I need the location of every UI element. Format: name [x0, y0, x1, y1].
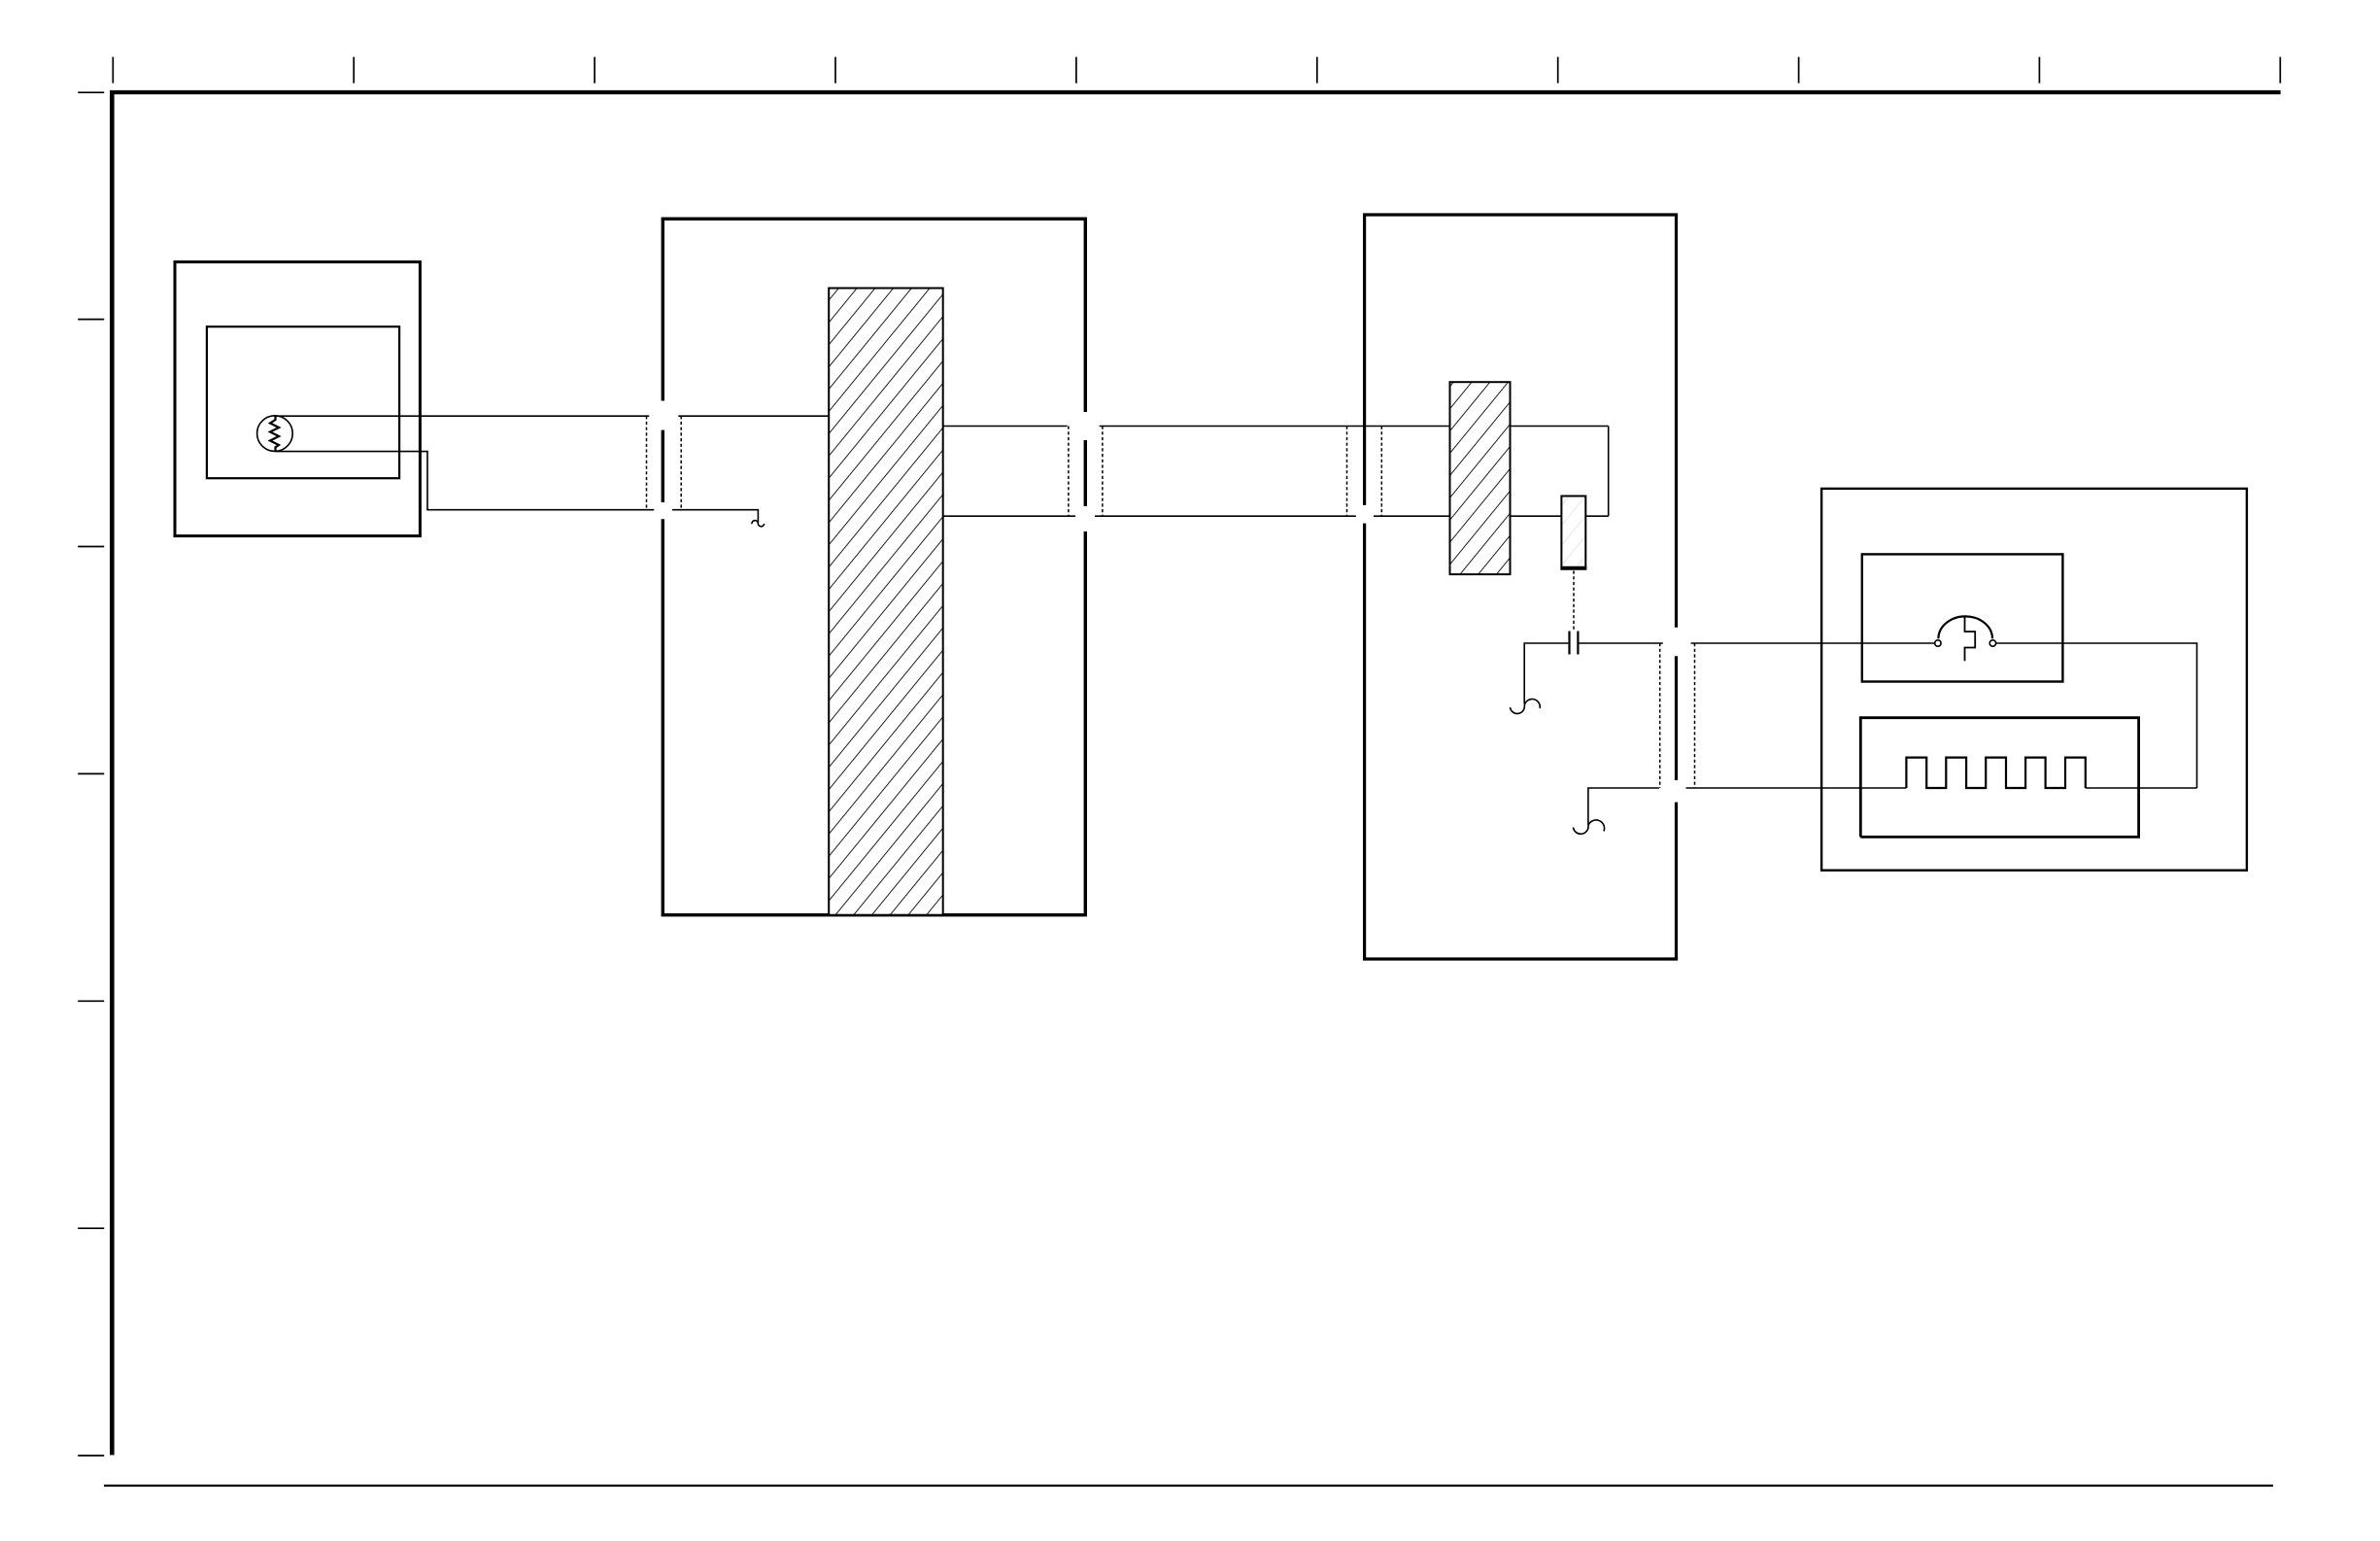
lamp LA1 — [257, 416, 293, 452]
connector CN2 dashed boundary right — [1102, 427, 1104, 517]
wire: heat plate to connector CN2 upper — [943, 426, 1068, 428]
sensor enclosure box3 right edge (gaps at wires) — [1675, 215, 1678, 959]
wire: lower loop inside box3 — [1374, 515, 1609, 517]
wire: loop vertical joining upper and lower — [1608, 427, 1610, 517]
wire: lower bus into comb box — [1686, 787, 1907, 789]
wire: CN4 to breaker left terminal — [1691, 642, 1935, 644]
wire: heat plate to connector CN2 lower — [943, 515, 1075, 517]
sensor enclosure box3 left edge (gap at lower wire) — [1363, 215, 1366, 959]
wire: switch right lead to CN4 — [1580, 642, 1663, 644]
breaker housing box A — [1862, 554, 2063, 681]
wire: box3 lower return with pigtail — [1588, 788, 1659, 825]
connector CN3 dashed boundary left — [1346, 427, 1348, 517]
pigtail hook lower — [1574, 820, 1605, 834]
wire: CN2 to sensor plate upper — [1100, 426, 1450, 428]
connector CN1 dashed boundary left — [646, 416, 648, 510]
connector CN4 dashed boundary right — [1694, 643, 1696, 788]
control unit box4 — [1821, 489, 2247, 871]
heater element meander — [1906, 758, 2085, 788]
sensor plate (hatched) in box3 — [1450, 382, 1511, 574]
thermal breaker arc — [1938, 616, 1992, 638]
connector CN4 dashed boundary left — [1659, 643, 1661, 788]
heater element box (comb) — [1860, 718, 2138, 838]
actuator block (light hatched) — [1560, 497, 1586, 568]
breaker terminal circle left — [1935, 640, 1941, 646]
wire: lamp top to connector CN1 — [276, 415, 650, 417]
pigtail hook upper — [1511, 699, 1541, 713]
wire: upper wire to loop corner — [1511, 426, 1609, 428]
heat plate (hatched) in middle enclosure — [829, 289, 943, 915]
wire: breaker right terminal loop down — [1996, 643, 2197, 788]
lamp inner box — [207, 326, 399, 478]
wire: CN1 to heat plate — [678, 415, 829, 417]
sensor enclosure box3 top and bottom edges — [1363, 215, 1678, 959]
mechanical link (dashed) actuator to switch — [1573, 571, 1575, 633]
middle enclosure box top and bottom edges — [662, 219, 1087, 915]
switch contact plates S1 — [1568, 632, 1570, 655]
wire: switch left lead — [1524, 643, 1568, 704]
breaker terminal circle right — [1989, 640, 1995, 646]
wire: CN1 lower stub with pigtail — [672, 510, 759, 524]
connector CN1 dashed boundary right — [680, 416, 682, 510]
connector CN2 dashed boundary left — [1068, 427, 1070, 517]
wire: comb to loop corner — [2086, 787, 2197, 789]
middle enclosure box right edge (with wire gaps) — [1084, 219, 1087, 915]
pigtail hook (small) — [752, 521, 765, 527]
wire: CN2 to box3 lower — [1095, 515, 1356, 517]
middle enclosure box left edge (with wire gaps) — [662, 219, 664, 915]
thermal breaker bimetal step — [1965, 617, 1976, 661]
wire: lamp bottom lead — [276, 452, 655, 510]
lamp housing outer box — [175, 262, 420, 536]
connector CN3 dashed boundary right — [1380, 427, 1382, 517]
lamp filament zigzag — [270, 416, 279, 452]
